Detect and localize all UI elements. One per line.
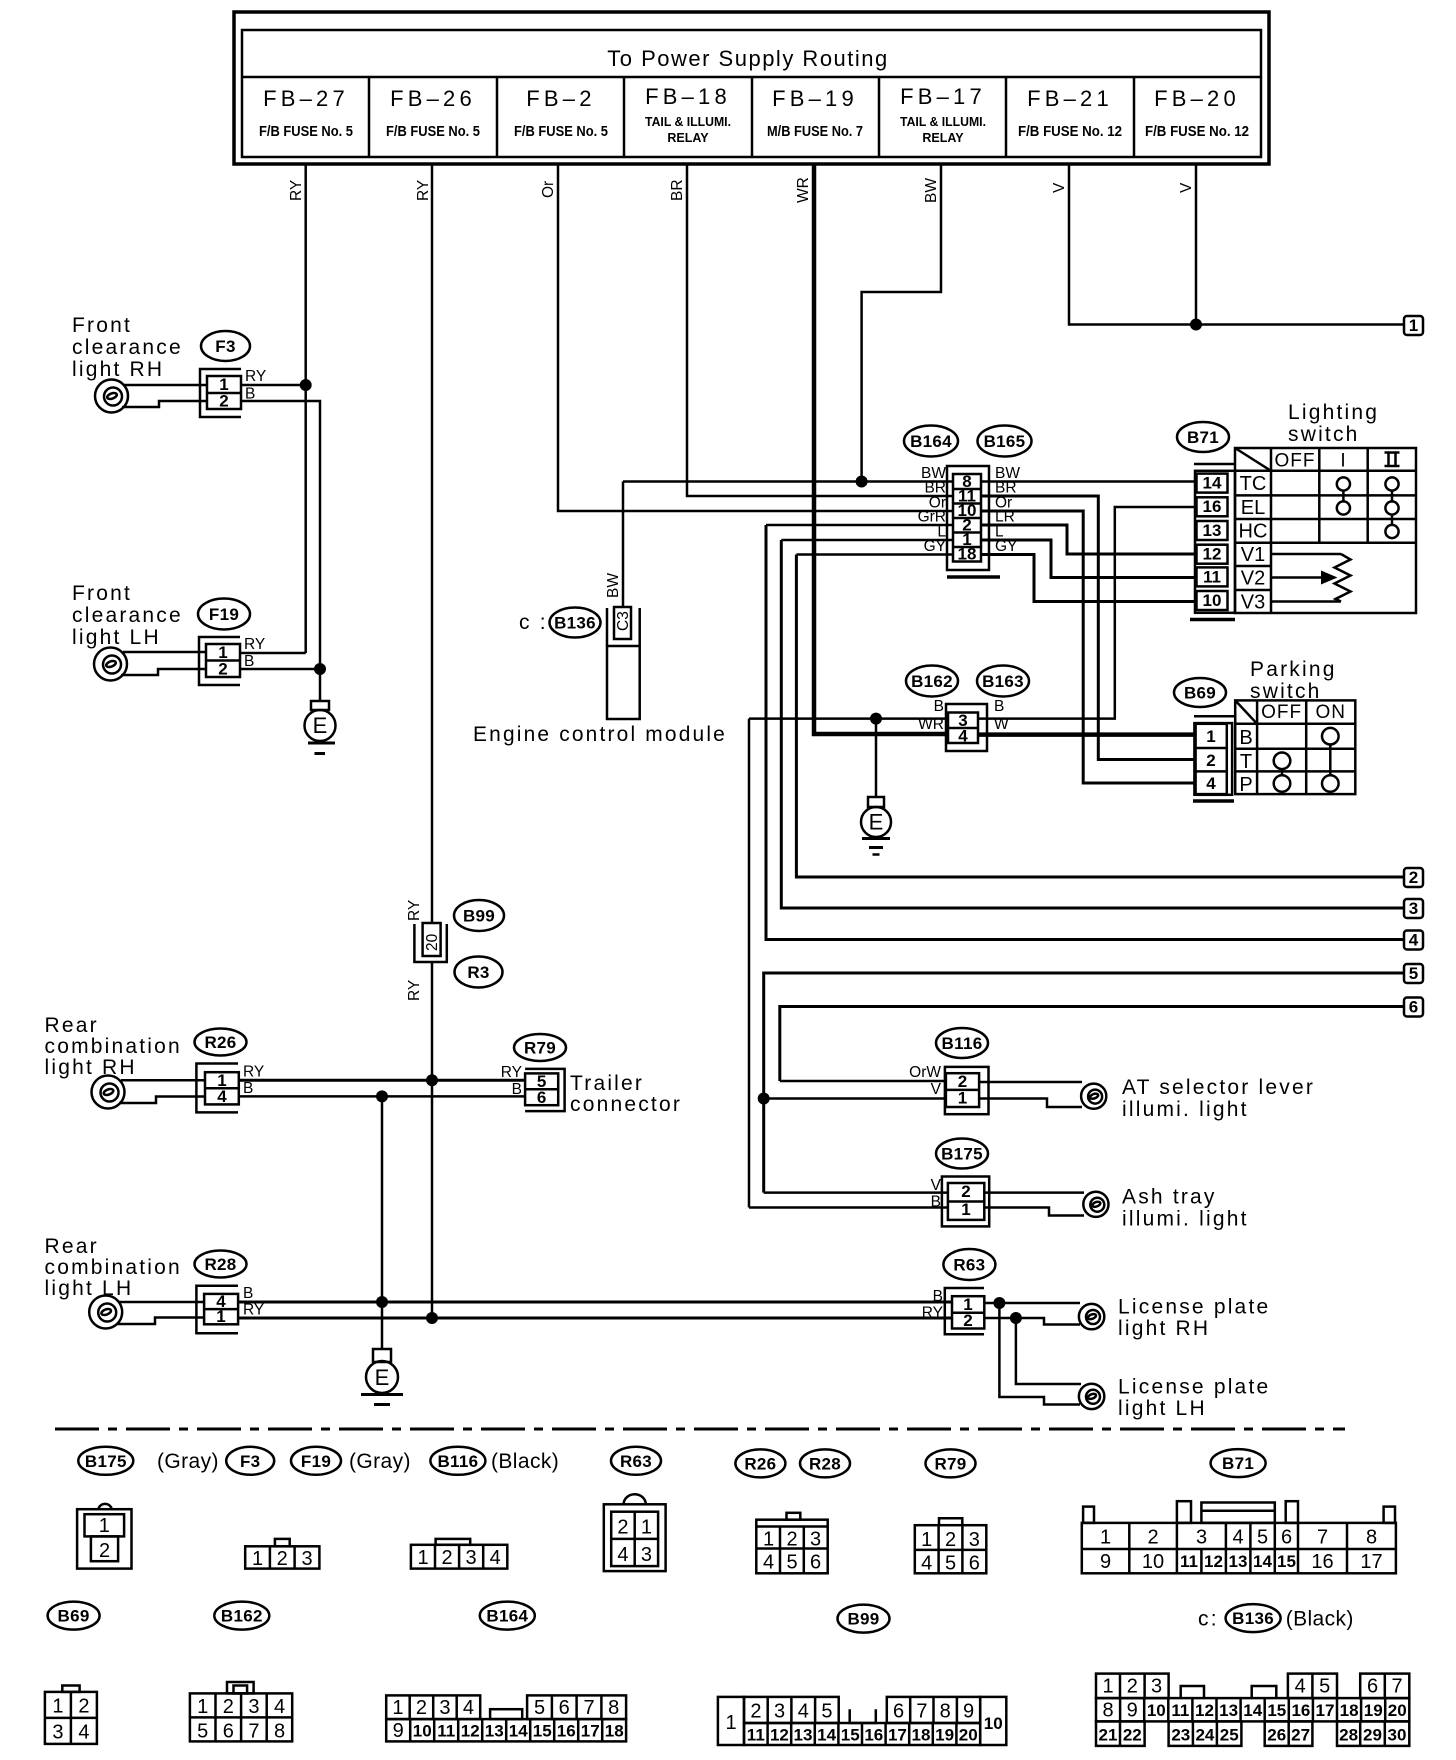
pin C3 ECM connector [614,607,632,639]
svg-text:B99: B99 [463,907,495,926]
pinout R26/R28 [756,1513,827,1574]
svg-text:License plate: License plate [1118,1376,1270,1399]
svg-text:light LH: light LH [72,626,161,649]
index oval R79 [926,1449,976,1477]
pinout B136 [1096,1674,1409,1746]
contact EL-II [1385,501,1398,514]
lamp ash tray illumi [1083,1192,1108,1217]
svg-text:6: 6 [810,1552,821,1574]
wire GY B165 to B71 pin10 [981,555,1196,602]
svg-text:5: 5 [1409,964,1418,983]
lamp license plate RH [1079,1304,1104,1329]
pin 10 B71 [1197,591,1228,610]
svg-text:6: 6 [969,1553,980,1575]
svg-text:3: 3 [1196,1527,1207,1549]
connector R26 housing [196,1064,238,1113]
svg-text:5: 5 [821,1701,832,1723]
svg-text:E: E [869,810,884,835]
svg-text:B165: B165 [984,432,1026,451]
wire BW horizontal to B164 pin8 [623,480,953,483]
svg-text:combination: combination [45,1256,182,1279]
svg-text:BR: BR [669,179,686,201]
svg-text:R3: R3 [467,963,489,982]
svg-text:RY: RY [406,900,423,921]
svg-text:2: 2 [1409,868,1418,887]
label c: B136 [519,608,601,638]
svg-text:B: B [244,653,254,670]
wire B into B162 pin3 [749,717,948,720]
svg-text:13: 13 [1219,1701,1238,1720]
svg-text:B99: B99 [847,1610,879,1629]
svg-text:9: 9 [963,1701,974,1723]
contact P-ON [1322,775,1339,792]
fuse FB-21 [1018,86,1122,140]
svg-text:B: B [1239,727,1252,749]
svg-text:1: 1 [216,1307,225,1326]
wire L B165 to B71 pin11 [981,540,1196,578]
parking switch table [1235,700,1355,794]
wire WR from FB-19 [795,164,948,734]
connector F3 housing [200,369,241,417]
svg-text:FB–17: FB–17 [900,84,986,109]
pin 12 B71 [1197,545,1228,564]
svg-text:1: 1 [725,1712,736,1734]
svg-text:1: 1 [958,1089,967,1108]
connector B162/B163 housing [946,704,987,751]
wire V from FB-20 [1178,164,1196,325]
pin 11 B71 [1197,567,1228,586]
svg-text:TAIL & ILLUMI.: TAIL & ILLUMI. [645,115,731,129]
svg-text:B: B [934,698,944,715]
wire B116 to AT lamp [979,1082,1082,1107]
header II lighting [1385,453,1400,467]
link EL-II HC-II [1391,515,1394,525]
svg-text:B164: B164 [486,1607,528,1626]
svg-text:4: 4 [78,1722,89,1744]
wiper arrow V2 [1271,571,1338,585]
svg-text:combination: combination [45,1035,182,1058]
svg-text:4: 4 [1295,1676,1306,1698]
svg-text:B: B [243,1285,253,1302]
svg-text:17: 17 [1316,1701,1335,1720]
svg-text:RY: RY [244,636,265,653]
label Front clearance light LH [72,582,183,649]
svg-text:1: 1 [1102,1676,1113,1698]
svg-text:Parking: Parking [1250,658,1337,681]
svg-text:15: 15 [841,1726,860,1745]
wire L to page link 3 [781,540,1404,908]
svg-text:B: B [933,1288,943,1305]
svg-text:5: 5 [786,1552,797,1574]
label Trailer connector [570,1072,682,1116]
svg-text:14: 14 [1203,474,1222,493]
svg-text:15: 15 [533,1722,552,1741]
svg-text:2: 2 [1147,1527,1158,1549]
svg-text:6: 6 [1409,998,1418,1017]
connector F19 oval [198,599,250,630]
svg-text:TC: TC [1240,473,1267,495]
lamp license plate LH [1079,1384,1104,1409]
svg-text:V1: V1 [1241,544,1265,566]
connector R63 housing [945,1288,985,1334]
svg-text:2: 2 [277,1548,288,1570]
svg-text:14: 14 [817,1726,836,1745]
contact TC-II [1385,477,1398,490]
ground E middle [861,719,891,855]
svg-text:C3: C3 [615,611,632,631]
wire F3 pin2 B down [241,401,320,669]
pinout B71 [1082,1501,1396,1573]
svg-text:Front: Front [72,582,132,605]
svg-text:B: B [243,1080,253,1097]
svg-text:illumi. light: illumi. light [1122,1098,1249,1121]
svg-text:27: 27 [1291,1726,1310,1745]
wire RY R26 to R79 pin5 [239,1079,525,1082]
svg-text:5: 5 [1319,1676,1330,1698]
junction V net [758,1093,770,1105]
svg-text:RY: RY [922,1305,943,1322]
connector B175 housing [942,1177,989,1227]
svg-text:AT selector lever: AT selector lever [1122,1076,1315,1099]
svg-text:RY: RY [501,1064,522,1081]
svg-text:WR: WR [795,177,812,203]
svg-text:20: 20 [959,1726,978,1745]
svg-text:OFF: OFF [1261,702,1302,723]
svg-text:clearance: clearance [72,604,183,627]
wire B R28 to R63 pin1 [238,1301,952,1304]
svg-text:light RH: light RH [45,1056,137,1079]
svg-text:illumi. light: illumi. light [1122,1208,1249,1231]
svg-text:B164: B164 [910,432,952,451]
svg-text:R63: R63 [620,1452,652,1471]
svg-text:22: 22 [1123,1726,1142,1745]
fuse FB-20 [1145,86,1249,140]
svg-text:switch: switch [1288,423,1360,446]
wire OrW net to page link 6 [780,1007,1404,1082]
svg-text:(Black): (Black) [1286,1608,1354,1631]
page link box 4 [1404,931,1423,950]
svg-text:11: 11 [1203,567,1221,586]
connector R26 oval [195,1029,247,1056]
svg-text:12: 12 [770,1726,789,1745]
svg-text:7: 7 [1391,1676,1402,1698]
wire F3 pin1 to RY trunk [241,384,306,387]
svg-text:R28: R28 [204,1255,236,1274]
page link box 5 [1404,964,1423,983]
svg-text:B116: B116 [437,1452,478,1471]
connector B175 oval [936,1139,988,1169]
wire B R26 to R79 pin6 [239,1095,525,1098]
svg-text:1: 1 [392,1697,403,1719]
junction B at ground [870,713,882,725]
pin 16 B71 [1197,497,1228,516]
svg-text:7: 7 [1317,1527,1328,1549]
connector B164 oval [904,426,958,457]
wire R26 bulb to pin4 [119,1097,205,1104]
svg-text:Front: Front [72,314,132,337]
wire BW B165 to B71 pin14 [981,480,1196,483]
svg-text:B: B [512,1081,522,1098]
svg-text:8: 8 [1102,1700,1113,1722]
rheostat V1-V3 [1271,554,1351,602]
label Front clearance light RH [72,314,183,381]
wire R28 bulb to pin4 [119,1301,204,1304]
svg-text:clearance: clearance [72,336,183,359]
svg-text:F/B FUSE No. 12: F/B FUSE No. 12 [1145,123,1249,140]
wire B to B175 pin1 [749,1206,948,1209]
label License plate light LH [1118,1376,1270,1421]
wire F3 bulb to pin2 [122,401,207,407]
svg-text:FB–27: FB–27 [263,86,349,111]
svg-text:V2: V2 [1241,568,1265,590]
svg-text:R26: R26 [744,1454,776,1473]
svg-text:8: 8 [274,1721,285,1743]
wire BW to ECM [605,482,623,608]
label Ash tray illumi light [1122,1186,1249,1231]
lamp F3 front clearance RH [95,380,128,413]
page link box 3 [1404,899,1423,918]
lamp R28 rear combination LH [89,1296,122,1329]
lamp F19 front clearance LH [94,648,127,681]
svg-text:4: 4 [463,1697,474,1719]
label Rear combination light RH [45,1014,182,1079]
svg-text:1: 1 [1100,1527,1111,1549]
svg-text:21: 21 [1099,1726,1118,1745]
svg-text:3: 3 [810,1529,821,1551]
svg-text:1: 1 [961,1200,970,1219]
svg-text:10: 10 [1203,591,1222,610]
link TC-I EL-I [1342,491,1345,502]
svg-text:FB–18: FB–18 [645,84,731,109]
svg-text:12: 12 [1195,1701,1214,1720]
svg-text:5: 5 [197,1721,208,1743]
svg-text:V: V [1178,182,1195,193]
svg-text:F3: F3 [215,337,235,356]
svg-text:2: 2 [78,1696,89,1718]
svg-text:F19: F19 [301,1452,331,1471]
svg-text:3: 3 [1409,899,1418,918]
svg-text:29: 29 [1363,1726,1382,1745]
svg-text:18: 18 [958,545,977,564]
svg-text:c:: c: [1198,1608,1219,1631]
label Rear combination light LH [45,1235,182,1300]
svg-text:2: 2 [1127,1676,1138,1698]
connector R28 oval [195,1251,247,1278]
svg-text:EL: EL [1241,497,1265,519]
svg-text:12: 12 [1204,1552,1223,1571]
svg-text:B136: B136 [1232,1609,1274,1628]
wire RY from FB-26 [415,164,432,1319]
svg-text:1: 1 [197,1696,208,1718]
svg-text:E: E [313,713,328,738]
svg-text:R63: R63 [953,1256,985,1275]
svg-text:F/B FUSE No. 5: F/B FUSE No. 5 [386,123,480,140]
junction RY trunk rear [426,1074,438,1086]
svg-text:B175: B175 [85,1452,127,1471]
svg-text:26: 26 [1267,1726,1286,1745]
svg-text:13: 13 [1229,1552,1248,1571]
fuse FB-2 [514,86,608,140]
pinout B162 [190,1682,292,1743]
svg-text:Trailer: Trailer [570,1072,644,1095]
pinout F3/F19 [245,1539,319,1570]
svg-text:Or: Or [540,181,557,198]
wire RY R28 to R63 pin2 [238,1317,952,1320]
svg-text:4: 4 [274,1696,285,1718]
svg-text:2: 2 [99,1540,110,1562]
svg-text:4: 4 [763,1552,774,1574]
connector B164/B165 housing [947,466,1000,577]
svg-text:1: 1 [1206,727,1215,746]
wire F19 bulb to pin2 [121,669,206,675]
svg-text:17: 17 [1360,1551,1382,1573]
connector B99 oval [454,900,504,931]
svg-text:2: 2 [416,1697,427,1719]
svg-text:16: 16 [557,1722,576,1741]
svg-text:16: 16 [1311,1551,1333,1573]
fuse FB-27 [259,86,353,140]
svg-text:18: 18 [1340,1701,1359,1720]
svg-text:V: V [1051,182,1068,193]
wire GrR B164 pin2 [766,524,953,527]
relay FB-17 [900,84,986,145]
wire R26 bulb to pin1 [121,1079,205,1082]
svg-text:7: 7 [583,1697,594,1719]
pin 14 B71 [1197,474,1228,493]
lamp R26 rear combination RH [92,1076,125,1109]
svg-text:9: 9 [1100,1551,1111,1573]
svg-text:5: 5 [534,1697,545,1719]
svg-text:11: 11 [1171,1701,1189,1720]
ground E rear [361,1302,403,1405]
junction V wires [1190,319,1202,331]
pinout B69 [45,1686,97,1744]
link TC-II EL-II [1391,491,1394,502]
svg-text:2: 2 [1206,751,1215,770]
index oval B175 [78,1447,133,1475]
svg-text:B69: B69 [1184,684,1216,703]
connector B162 oval [906,666,958,697]
svg-text:light RH: light RH [1118,1317,1210,1340]
svg-text:ON: ON [1315,702,1346,723]
wire R63 pin2 to license RH lower [984,1318,1080,1325]
wire F19 pin1 to RY trunk [240,652,306,655]
svg-text:5: 5 [945,1553,956,1575]
connector B163 oval [977,666,1029,697]
svg-text:R79: R79 [934,1454,966,1473]
wire R63 pin1 to license RH [984,1302,1080,1305]
pinout B175 [77,1504,131,1569]
svg-text:10: 10 [1142,1551,1164,1573]
svg-text:17: 17 [581,1722,600,1741]
index oval B99 [838,1605,890,1633]
wire RY from FB-27 [288,164,306,653]
svg-text:2: 2 [945,1529,956,1551]
wire B rear down [381,1096,384,1302]
svg-text:Rear: Rear [45,1235,99,1258]
svg-text:Engine control module: Engine control module [473,723,727,746]
svg-text:RELAY: RELAY [922,131,964,145]
wire Or from FB-2 [540,164,953,511]
label Lighting switch [1288,401,1379,446]
svg-text:B69: B69 [58,1607,90,1626]
svg-text:B163: B163 [982,672,1024,691]
svg-text:1: 1 [1409,316,1418,335]
svg-text:25: 25 [1220,1726,1239,1745]
fuse FB-26 [386,86,480,140]
page link box 2 [1404,868,1423,887]
svg-text:RY: RY [406,980,423,1001]
contact T-OFF [1274,753,1291,770]
svg-text:(Black): (Black) [491,1450,559,1473]
junction license B [993,1297,1005,1309]
wire V net to page link 5 [764,973,1404,1193]
wire V to B175 pin2 [764,1191,948,1194]
svg-text:T: T [1240,751,1252,773]
svg-text:2: 2 [961,1182,970,1201]
svg-text:3: 3 [641,1544,652,1566]
svg-text:B136: B136 [554,614,596,633]
svg-text:R79: R79 [524,1039,556,1058]
inline connector 20 on RY [406,900,447,1001]
svg-text:15: 15 [1277,1552,1296,1571]
svg-text:6: 6 [537,1088,546,1107]
svg-text:B116: B116 [942,1034,983,1053]
svg-text:3: 3 [774,1701,785,1723]
wire F3 bulb to pin1 [124,384,207,387]
label Parking switch [1250,658,1337,703]
junction license RY [1010,1312,1022,1324]
svg-text:F19: F19 [209,605,239,624]
svg-text:3: 3 [1151,1676,1162,1698]
svg-text:FB–19: FB–19 [772,86,858,111]
svg-text:HC: HC [1239,521,1268,543]
svg-text:4: 4 [1206,774,1216,793]
wire B B163 to B71 pin16 [978,507,1196,719]
wire Or B165 to B69 pin4 [981,511,1196,783]
engine control module body [607,608,640,719]
contact EL-I [1337,501,1350,514]
wire BR from FB-18 [669,164,953,496]
contact HC-II [1385,525,1398,538]
svg-text:1: 1 [641,1517,652,1539]
wire GY B164 pin18 [796,553,953,556]
connector R28 housing [196,1286,238,1334]
pinout B164 [386,1695,626,1742]
svg-text:4: 4 [1409,931,1419,950]
svg-text:B175: B175 [941,1145,983,1164]
svg-text:RY: RY [288,180,305,201]
wire GY to page link 2 [796,555,1404,878]
svg-text:11: 11 [747,1726,765,1745]
svg-text:13: 13 [794,1726,813,1745]
svg-text:19: 19 [1364,1701,1383,1720]
connector B69 housing [1193,716,1234,801]
svg-text:V: V [931,1081,942,1098]
connector B71 housing [1190,464,1235,620]
svg-text:B162: B162 [221,1607,263,1626]
svg-text:30: 30 [1388,1726,1407,1745]
svg-text:6: 6 [559,1697,570,1719]
wire B175 to ash lamp [984,1193,1084,1216]
index oval B71 [1211,1449,1266,1477]
pinout R79 [915,1518,987,1574]
svg-text:16: 16 [1291,1701,1310,1720]
connector F3 oval [201,331,250,361]
svg-text:Ash tray: Ash tray [1122,1186,1217,1209]
svg-text:16: 16 [1203,497,1222,516]
wire B net down left [748,719,751,1208]
